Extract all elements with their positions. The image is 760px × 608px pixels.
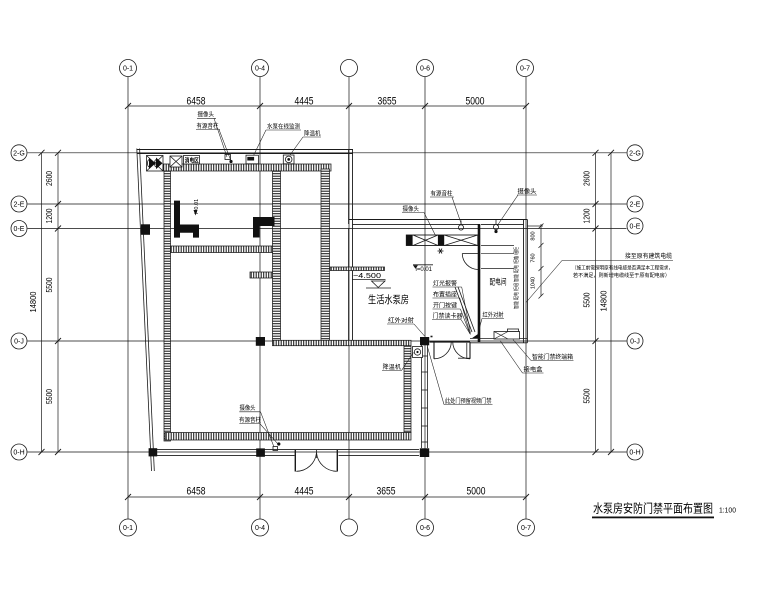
svg-text:5500: 5500 xyxy=(45,389,54,404)
svg-text:0-4: 0-4 xyxy=(255,66,265,73)
svg-text:布置插座: 布置插座 xyxy=(433,291,457,299)
svg-text:2-G: 2-G xyxy=(13,150,25,157)
svg-text:5500: 5500 xyxy=(583,388,592,403)
svg-text:0-7: 0-7 xyxy=(521,525,531,532)
svg-text:800: 800 xyxy=(531,231,537,240)
svg-text:760: 760 xyxy=(531,253,537,262)
svg-text:14800: 14800 xyxy=(600,290,609,312)
svg-text:1040: 1040 xyxy=(531,277,537,289)
svg-text:红外对射: 红外对射 xyxy=(483,311,504,319)
svg-text:生活水泵房: 生活水泵房 xyxy=(368,293,409,306)
svg-text:若不满足，则新增电缆线至于原有配电房）: 若不满足，则新增电缆线至于原有配电房） xyxy=(573,271,670,279)
svg-text:降温机: 降温机 xyxy=(383,363,402,371)
svg-text:0-4: 0-4 xyxy=(255,525,265,532)
svg-text:5000: 5000 xyxy=(466,95,485,107)
svg-text:摄像头: 摄像头 xyxy=(518,187,537,195)
svg-text:i=0.01: i=0.01 xyxy=(416,267,433,273)
svg-text:2-E: 2-E xyxy=(14,202,25,209)
svg-text:2-G: 2-G xyxy=(629,150,641,157)
svg-text:开门按键: 开门按键 xyxy=(433,302,457,310)
svg-text:0-J: 0-J xyxy=(630,339,640,346)
svg-text:智能 配电 柜组 智能 配电 柜箱 组柜: 智能 配电 柜组 智能 配电 柜箱 组柜 xyxy=(513,247,520,309)
svg-text:智能门禁终端箱: 智能门禁终端箱 xyxy=(532,353,573,361)
svg-text:4445: 4445 xyxy=(295,485,314,497)
svg-text:接至原有建筑电缆: 接至原有建筑电缆 xyxy=(625,252,672,260)
svg-text:0-E: 0-E xyxy=(14,226,25,233)
svg-text:红外对射: 红外对射 xyxy=(388,317,414,325)
svg-text:0-J: 0-J xyxy=(14,339,24,346)
svg-text:摄像头: 摄像头 xyxy=(240,404,256,412)
svg-text:5500: 5500 xyxy=(45,277,54,292)
svg-text:水泵房安防门禁平面布置图: 水泵房安防门禁平面布置图 xyxy=(593,501,713,516)
svg-text:6458: 6458 xyxy=(187,95,206,107)
svg-text:（施工前需探明原有线电缆是否满足本工程需求，: （施工前需探明原有线电缆是否满足本工程需求， xyxy=(572,264,673,272)
svg-text:−4.500: −4.500 xyxy=(353,271,381,280)
svg-text:0-6: 0-6 xyxy=(420,66,430,73)
svg-text:门禁读卡器: 门禁读卡器 xyxy=(433,312,463,320)
svg-text:0-1: 0-1 xyxy=(123,66,133,73)
svg-text:2600: 2600 xyxy=(45,171,54,186)
svg-text:3655: 3655 xyxy=(377,485,396,497)
svg-text:消电区: 消电区 xyxy=(185,156,199,164)
svg-text:有源音柱: 有源音柱 xyxy=(431,189,453,197)
svg-text:接电盒: 接电盒 xyxy=(524,366,543,374)
svg-text:摄像头: 摄像头 xyxy=(403,205,420,213)
svg-text:1200: 1200 xyxy=(45,208,54,223)
svg-text:水泵在线监测: 水泵在线监测 xyxy=(267,122,300,130)
svg-text:5500: 5500 xyxy=(583,292,592,307)
svg-text:摄像头: 摄像头 xyxy=(198,111,215,119)
svg-text:0-1: 0-1 xyxy=(123,525,133,532)
svg-text:0-6: 0-6 xyxy=(420,525,430,532)
svg-text:6458: 6458 xyxy=(187,485,206,497)
svg-text:14800: 14800 xyxy=(29,291,38,313)
svg-text:0-H: 0-H xyxy=(629,450,640,457)
svg-text:0-E: 0-E xyxy=(630,224,641,231)
svg-text:1200: 1200 xyxy=(583,208,592,223)
svg-text:5000: 5000 xyxy=(467,485,486,497)
svg-text:2600: 2600 xyxy=(583,171,592,186)
svg-text:此处门预留视频门禁: 此处门预留视频门禁 xyxy=(445,397,492,405)
svg-text:2-E: 2-E xyxy=(630,202,641,209)
svg-text:4445: 4445 xyxy=(295,95,314,107)
svg-text:0-7: 0-7 xyxy=(520,66,530,73)
svg-text:降温机: 降温机 xyxy=(304,129,321,137)
svg-text:配电间: 配电间 xyxy=(490,277,507,287)
svg-text:有源音柱: 有源音柱 xyxy=(239,416,261,424)
svg-text:3655: 3655 xyxy=(378,95,397,107)
svg-text:0-H: 0-H xyxy=(13,450,24,457)
svg-text:灯光报警: 灯光报警 xyxy=(433,280,457,288)
svg-text:1:100: 1:100 xyxy=(719,508,736,515)
svg-text:有源音柱: 有源音柱 xyxy=(197,122,219,130)
